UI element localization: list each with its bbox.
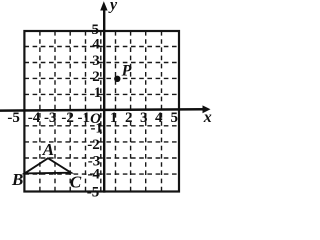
- svg-text:A: A: [42, 140, 54, 159]
- svg-text:-5: -5: [87, 185, 100, 198]
- y-axis arrowhead: [100, 1, 107, 10]
- svg-text:-5: -5: [7, 110, 20, 126]
- x-axis arrowhead: [203, 105, 211, 113]
- svg-text:5: 5: [91, 22, 99, 38]
- svg-text:4: 4: [92, 37, 100, 53]
- svg-text:3: 3: [140, 110, 148, 126]
- triangle ABC: [25, 158, 71, 173]
- svg-text:2: 2: [125, 110, 133, 126]
- grid solid border box: [24, 31, 179, 192]
- svg-text:-1: -1: [78, 110, 91, 126]
- svg-text:-2: -2: [87, 137, 100, 153]
- svg-text:x: x: [203, 109, 212, 126]
- svg-text:4: 4: [155, 110, 163, 126]
- svg-text:-4: -4: [87, 167, 100, 183]
- svg-text:B: B: [11, 170, 23, 189]
- point P dot: [114, 76, 120, 82]
- svg-text:1: 1: [110, 110, 118, 126]
- svg-text:2: 2: [92, 69, 100, 85]
- svg-text:-4: -4: [28, 110, 41, 126]
- svg-text:y: y: [108, 0, 118, 14]
- svg-text:-2: -2: [61, 110, 74, 126]
- grid dashed vertical lines: [40, 31, 162, 192]
- svg-text:-3: -3: [44, 110, 57, 126]
- svg-text:C: C: [70, 172, 82, 191]
- svg-text:1: 1: [94, 85, 102, 101]
- grid dashed horizontal lines: [24, 47, 179, 175]
- x-axis: [0, 109, 204, 110]
- svg-text:-1: -1: [90, 121, 103, 137]
- svg-text:5: 5: [170, 110, 178, 126]
- y-axis: [103, 8, 105, 193]
- svg-text:3: 3: [92, 53, 100, 69]
- svg-text:P: P: [121, 62, 132, 79]
